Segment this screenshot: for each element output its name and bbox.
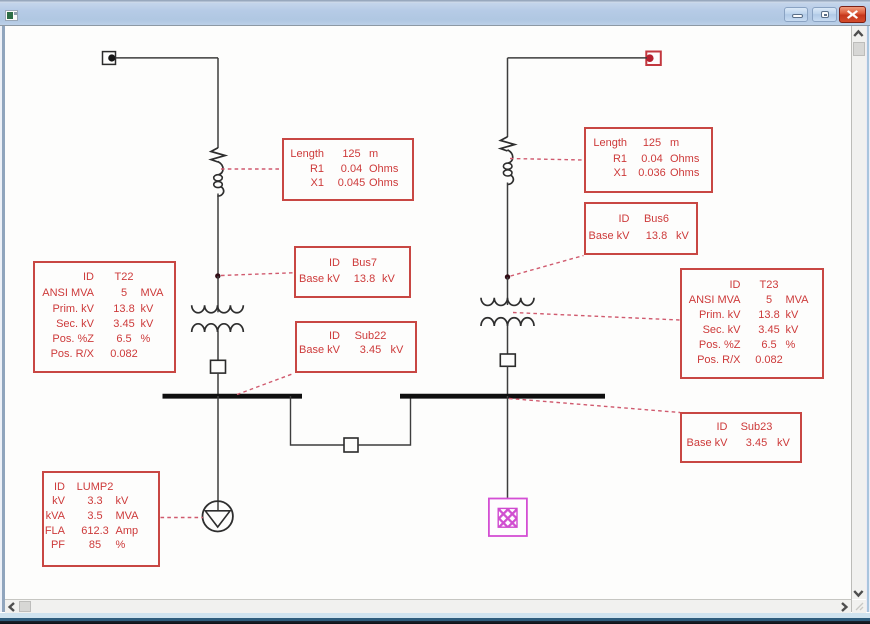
breaker left feeder [211,360,226,373]
hscroll thumb [19,601,31,613]
annotation Bus6 [584,202,698,255]
annotation cable left (Length/R1/X1) [282,138,415,201]
right frame border [866,26,867,612]
cable right: inductor coil [503,150,513,185]
annotation LUMP2 [42,471,160,567]
transformer T23 primary winding [481,298,534,306]
horizontal scrollbar track [5,600,851,613]
corner resize grip [852,600,866,613]
leader Sub23 info [509,399,680,413]
wire breaker to bus Sub22 [217,373,219,396]
cable right: resistor zigzag [501,137,515,151]
wire T22 to breaker [217,331,219,361]
hscroll left arrow [6,601,18,613]
bus Sub22 [163,394,303,399]
wire left cable to Bus7 [217,194,219,277]
wire left vertical to cable [217,58,219,148]
title bar [0,3,870,25]
canvas right divider [851,26,852,612]
canvas bottom divider [5,599,851,600]
title bar bottom line [0,25,870,27]
wire top horizontal right [508,57,648,59]
close button [839,6,866,23]
minimize button [784,7,808,23]
wire tie right [358,396,411,445]
transformer T23 secondary winding [481,318,534,326]
static load symbol [489,499,527,537]
wire right cable to Bus6 [507,183,509,278]
wire T23 to breaker [507,325,509,355]
wire Sub22 to LUMP2 [217,396,219,511]
leader right cable info [510,159,584,161]
wire Bus6 to transformer T23 [507,277,509,305]
bottom frame [0,613,870,618]
transformer T22 secondary winding [192,324,244,332]
load LUMP2 symbol [203,501,233,531]
wire breaker to bus Sub23 [507,366,509,396]
leader Bus6 info [511,256,584,277]
vscroll thumb [853,42,865,57]
annotation T23 [680,268,824,379]
node Bus6 [505,274,510,279]
leader T23 info [513,313,680,321]
window icon [5,10,18,21]
node Bus7 [215,273,220,278]
leader Sub22 info [237,374,294,395]
left frame border [0,26,2,612]
wire tie left drop [291,396,345,445]
leader Bus7 info [221,273,293,276]
breaker right feeder [500,354,515,366]
annotation Bus7 [294,246,412,298]
wire right vertical to cable [507,58,509,137]
vscroll down arrow [852,587,865,599]
vscroll up arrow [852,28,865,40]
maximize button [812,7,837,23]
wire top horizontal left [116,57,219,59]
annotation Sub22 [295,321,417,374]
cable left: inductor coil [214,162,224,197]
bus Sub23 [400,394,605,399]
annotation Sub23 [680,412,802,463]
breaker tie [344,438,358,452]
annotation T22 [33,261,176,373]
wire Bus7 to transformer T22 [217,276,219,312]
transformer T22 primary winding [192,305,244,313]
leader LUMP2 info [161,517,204,519]
annotation cable right (Length/R1/X1) [584,127,713,193]
utility terminal right (selected) [646,52,661,66]
vertical scrollbar track [852,26,866,599]
leader left cable info [221,168,281,170]
wire Sub23 to static load [507,396,509,499]
hscroll right arrow [838,601,850,613]
utility terminal left [103,52,116,65]
cable left: resistor zigzag [211,148,225,162]
window frame top edge [0,0,870,3]
